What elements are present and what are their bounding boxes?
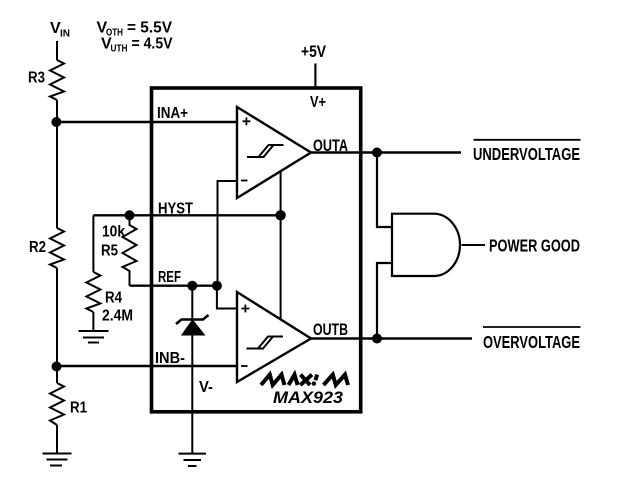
label VUTH = 4.5V <box>101 36 173 55</box>
svg-text:HYST: HYST <box>158 201 193 218</box>
node OUTB <box>372 334 382 344</box>
IC box MAX923 <box>152 88 361 412</box>
wire AND output <box>462 244 486 246</box>
wire R4 to ground <box>92 312 94 331</box>
minus input A <box>241 180 248 182</box>
wire zener anode to ground (V-) <box>191 335 193 454</box>
hysteresis symbol B <box>247 337 284 349</box>
resistor R5 <box>123 215 137 285</box>
wire zener cathode lead <box>191 286 193 320</box>
ground (center, V-) <box>179 454 207 466</box>
svg-text:R1: R1 <box>70 400 87 417</box>
svg-text:R3: R3 <box>28 70 45 87</box>
svg-text:UTH: UTH <box>111 44 128 55</box>
node HYST/R5 <box>125 210 135 220</box>
ground (below R4) <box>79 331 109 343</box>
svg-text:= 5.5V: = 5.5V <box>127 20 172 37</box>
node A (R3/R2/INA+) <box>51 117 61 127</box>
svg-text:V+: V+ <box>310 94 326 111</box>
minus input B <box>241 365 248 367</box>
node VIN label <box>50 20 70 40</box>
wire INA+ <box>56 121 237 123</box>
wire HYST horizontal <box>93 214 280 216</box>
svg-text:IN: IN <box>60 29 70 40</box>
wire HYST corner down to R4 <box>92 215 94 272</box>
wire R2 to node B <box>56 268 58 383</box>
svg-text:INB-: INB- <box>155 350 185 367</box>
wire OUTA node down to AND gate <box>377 153 392 228</box>
wire R3 to node <box>56 100 58 228</box>
svg-text:10k: 10k <box>102 224 125 241</box>
wire HYST vertical (A slope to B slope) <box>280 172 282 319</box>
wire A minus to REF node <box>218 181 238 286</box>
svg-text:UNDERVOLTAGE: UNDERVOLTAGE <box>473 144 580 164</box>
op-amp B (comparator) <box>237 292 311 382</box>
plus input A <box>243 117 251 125</box>
svg-text:+5V: +5V <box>301 42 327 61</box>
wire +5V stub <box>314 64 316 89</box>
ground (below R1) <box>43 454 72 466</box>
wire OUTA <box>311 151 461 153</box>
hysteresis symbol A <box>247 145 284 157</box>
svg-text:OUTB: OUTB <box>313 321 348 339</box>
wire REF horizontal <box>130 285 217 287</box>
node REF/zener <box>187 281 197 291</box>
svg-text:R5: R5 <box>101 243 118 260</box>
wire to UNDERVOLTAGE <box>377 152 461 154</box>
node HYST vertical <box>275 210 285 220</box>
wire VIN stub <box>56 41 58 60</box>
node REF/comparator <box>212 281 222 291</box>
svg-text:INA+: INA+ <box>157 105 188 122</box>
wire OUTB <box>311 337 472 339</box>
resistor R3 <box>50 60 64 100</box>
svg-text:POWER GOOD: POWER GOOD <box>489 236 580 256</box>
svg-text:REF: REF <box>158 269 181 286</box>
svg-text:= 4.5V: = 4.5V <box>132 36 173 53</box>
node B (R2/R1/INB-) <box>52 362 62 372</box>
wire INB- <box>57 365 238 367</box>
resistor R1 <box>50 383 64 425</box>
wire REF node to B plus <box>217 286 237 309</box>
svg-text:R2: R2 <box>29 239 46 256</box>
zener diode D1 <box>176 315 209 335</box>
svg-text:R4: R4 <box>105 290 122 307</box>
svg-text:OVERVOLTAGE: OVERVOLTAGE <box>483 332 580 352</box>
svg-text:V-: V- <box>199 379 213 396</box>
svg-text:MAX923: MAX923 <box>273 388 344 407</box>
svg-text:2.4M: 2.4M <box>102 308 133 325</box>
logo MAXIM <box>261 375 348 385</box>
op-amp A (comparator) <box>237 107 311 198</box>
node OUTA <box>372 148 382 158</box>
AND gate <box>392 214 460 276</box>
resistor R4 <box>86 272 100 312</box>
label VOTH = 5.5V <box>97 20 173 39</box>
resistor R2 <box>50 228 64 268</box>
plus input B <box>242 305 250 313</box>
wire R1 to ground <box>56 425 58 454</box>
wire OUTB node up to AND gate <box>377 263 392 339</box>
